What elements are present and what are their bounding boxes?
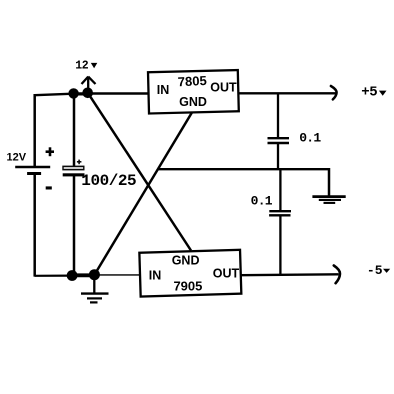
svg-text:12V: 12V: [7, 151, 27, 163]
svg-text:-5: -5: [367, 263, 383, 278]
svg-text:7905: 7905: [173, 278, 202, 293]
svg-text:GND: GND: [172, 253, 200, 267]
svg-text:0.1: 0.1: [251, 194, 273, 209]
svg-text:GND: GND: [179, 95, 207, 109]
svg-text:OUT: OUT: [210, 81, 237, 95]
svg-text:100/25: 100/25: [81, 172, 136, 190]
svg-text:IN: IN: [157, 83, 170, 97]
svg-text:OUT: OUT: [213, 267, 240, 281]
svg-text:7805: 7805: [177, 73, 207, 89]
svg-text:0.1: 0.1: [299, 131, 321, 146]
svg-text:+5: +5: [361, 85, 377, 101]
svg-text:IN: IN: [149, 268, 162, 282]
svg-text:12: 12: [75, 59, 88, 72]
